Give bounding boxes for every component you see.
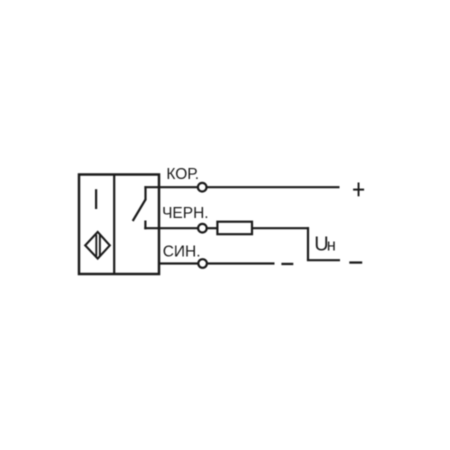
svg-text:н: н — [327, 237, 336, 255]
svg-text:ЧЕРН.: ЧЕРН. — [162, 205, 209, 222]
svg-text:СИН.: СИН. — [163, 243, 201, 260]
svg-text:КОР.: КОР. — [166, 166, 199, 183]
